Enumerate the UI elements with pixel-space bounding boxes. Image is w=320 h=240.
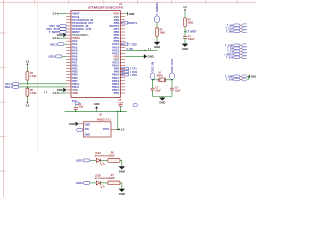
wire: [59, 92, 66, 94]
svg-text:VIN: VIN: [85, 128, 89, 131]
junction: [117, 111, 118, 112]
resistor R4: [26, 72, 37, 81]
svg-text:10kΩ: 10kΩ: [160, 32, 166, 34]
U2 VOUT pin: [111, 128, 116, 130]
wire: [59, 37, 66, 39]
svg-text:AP-N7WW9302: AP-N7WW9302: [95, 177, 111, 180]
hier label T_NRST: [49, 30, 66, 34]
wire: [62, 55, 66, 57]
power +3.3V below R5: [26, 100, 30, 107]
wire: [125, 49, 157, 51]
svg-text:GND: GND: [182, 47, 188, 51]
wire: [64, 43, 66, 45]
wire: [90, 159, 97, 161]
svg-text:VDD: VDD: [72, 91, 78, 95]
wire: [19, 86, 66, 88]
svg-text:4.7kΩ: 4.7kΩ: [30, 75, 36, 78]
border tick marks left: [0, 32, 6, 34]
svg-text:10uF: 10uF: [78, 106, 84, 108]
wire: [26, 80, 28, 84]
ground flag on rail: [94, 103, 100, 112]
capacitor C3: [170, 88, 181, 93]
wire: [125, 55, 144, 57]
svg-text:GND: GND: [57, 33, 63, 37]
svg-text:GND: GND: [119, 169, 125, 173]
crystal X1: [157, 73, 166, 82]
wire to ground: [120, 160, 122, 166]
U2 VIN pin label shape: [77, 128, 83, 131]
hier label T_SWDIO (vertical): [155, 2, 160, 23]
wire: [65, 28, 67, 30]
svg-text:T_SWDIO: T_SWDIO: [155, 2, 159, 16]
ground below C1: [182, 44, 188, 51]
hier label I_RX1: [122, 70, 138, 74]
capacitor C5: [118, 100, 124, 106]
wire: [171, 90, 173, 97]
wire: [153, 79, 159, 81]
ground below R6: [119, 166, 125, 173]
junction: [117, 129, 118, 130]
LED LED1: [95, 153, 111, 165]
hier label I_PS1: [122, 73, 138, 77]
junction: [184, 31, 185, 32]
hier label ADC1: [50, 42, 64, 46]
wire: [125, 13, 128, 15]
svg-text:10uF: 10uF: [118, 103, 124, 105]
power +3.3V above R3: [183, 6, 187, 12]
ground at PA11 row: [144, 54, 154, 58]
wire: [59, 13, 66, 15]
wire: [65, 25, 67, 27]
wire: [171, 79, 173, 88]
junction: [27, 86, 28, 87]
svg-text:100nF: 100nF: [188, 39, 195, 41]
svg-text:T_NRST: T_NRST: [188, 32, 198, 34]
ground below R7: [119, 189, 125, 196]
resistor R7: [108, 175, 120, 185]
svg-text:GND: GND: [147, 55, 153, 59]
sheet divider line: [37, 0, 39, 152]
svg-text:10kΩ: 10kΩ: [188, 23, 194, 25]
resistor R5: [26, 88, 37, 96]
hier label LED1: [48, 55, 62, 59]
U1 left pins: [66, 14, 71, 93]
svg-text:GND: GND: [57, 88, 63, 92]
wire: [75, 105, 77, 107]
ground below R2: [154, 42, 160, 49]
svg-text:LED2: LED2: [76, 181, 83, 185]
svg-text:STM32F103C8T6: STM32F103C8T6: [88, 7, 124, 10]
svg-text:AP-N7WW9302: AP-N7WW9302: [95, 155, 111, 158]
svg-text:GND: GND: [129, 12, 135, 16]
svg-text:LED1: LED1: [76, 159, 83, 163]
hier label OSC_OUT: [46, 27, 66, 31]
wire: [152, 90, 154, 97]
svg-text:GND: GND: [251, 75, 256, 78]
wire: [184, 12, 186, 18]
hier label LED2: [76, 181, 90, 185]
svg-text:10pF: 10pF: [155, 91, 161, 93]
connector J3 pin 1 T_GND: [225, 75, 247, 78]
svg-text:PB2: PB2: [114, 91, 120, 95]
svg-text:BOOT1: BOOT1: [128, 21, 137, 25]
U1 right pins: [120, 14, 125, 93]
svg-text:LED1: LED1: [48, 55, 55, 59]
wire: [116, 128, 118, 130]
wire: [26, 67, 28, 72]
U1 left pin names: [72, 12, 93, 95]
svg-text:AMS1117-3.3: AMS1117-3.3: [97, 118, 112, 121]
connector J2 pin 2 T_RX: [227, 47, 247, 50]
svg-text:T_TDO: T_TDO: [128, 42, 136, 46]
U2 GND pin: [78, 123, 83, 125]
svg-text:GND: GND: [119, 192, 125, 196]
wire: [184, 27, 186, 37]
ground at VSSA: [57, 33, 67, 37]
wire: [247, 75, 250, 77]
ground flag at top right: [128, 12, 135, 16]
junction: [27, 83, 28, 84]
hier label (small) right of rail: [133, 104, 137, 107]
ground at J3: [250, 75, 257, 79]
svg-text:T_5V0: T_5V0: [226, 79, 234, 82]
wire: [100, 182, 107, 184]
hier label OSC_IN (vertical): [150, 62, 155, 80]
svg-text:SDA1: SDA1: [5, 85, 13, 89]
wire: [120, 106, 122, 111]
power +3.3V at VBAT: [53, 13, 59, 16]
wire: [156, 23, 158, 28]
connector J2 pin 3 T_TX: [227, 50, 246, 53]
svg-text:LED1: LED1: [95, 153, 102, 155]
hier label I_TX1: [122, 67, 138, 71]
wire: [26, 87, 28, 88]
svg-text:10pF: 10pF: [175, 91, 181, 93]
capacitor C2: [151, 88, 162, 93]
hier label SCL1: [5, 82, 19, 86]
capacitor C1: [183, 36, 195, 41]
svg-text:T_5V0: T_5V0: [226, 56, 234, 59]
wire: [90, 182, 97, 184]
power +3.3V at VDD: [53, 92, 59, 95]
connector J2 pin 5 T_5V0: [226, 56, 247, 59]
svg-text:ADC1: ADC1: [50, 42, 58, 46]
wire: [152, 79, 154, 88]
resistor R3: [184, 18, 194, 27]
LED LED2: [95, 175, 111, 187]
wire: [65, 34, 67, 36]
power +3.3V at VDDA: [53, 37, 59, 40]
power +3.3V at VOUT: [118, 128, 125, 131]
microcontroller U1 STM32F103C8T6: [71, 3, 124, 98]
wire: [117, 111, 119, 129]
hier label T_NRST right: [186, 30, 197, 33]
connector J1 pin 3 T_DIO: [226, 30, 247, 33]
hier label OSC_IN: [49, 24, 66, 28]
svg-text:OSC_OUT: OSC_OUT: [170, 58, 174, 72]
ground at VSS: [57, 88, 67, 92]
svg-text:GND: GND: [69, 122, 75, 126]
connector J1 pin 1 T_MS: [227, 24, 247, 27]
wire: [65, 89, 67, 91]
power +3.3V for R4: [26, 61, 30, 67]
junction: [144, 50, 145, 51]
wire: [161, 97, 163, 98]
svg-text:8MHz: 8MHz: [157, 75, 164, 77]
svg-text:330Ω: 330Ω: [109, 178, 115, 180]
wire: [153, 96, 173, 98]
border tick marks top: [34, 0, 36, 4]
page border left: [2, 0, 4, 197]
junction: [248, 76, 249, 77]
svg-text:VOUT: VOUT: [103, 128, 110, 131]
svg-text:330Ω: 330Ω: [109, 156, 115, 158]
regulator U2: [83, 114, 111, 137]
ground at U2 GND pin: [69, 122, 79, 126]
wire: [75, 109, 77, 111]
svg-text:GND: GND: [85, 123, 91, 126]
wire: [65, 110, 127, 112]
junction: [152, 79, 153, 80]
capacitor C4: [74, 103, 84, 109]
wire: [100, 159, 107, 161]
wire: [184, 38, 186, 44]
ground below crystal: [159, 98, 165, 105]
svg-text:OSC_IN: OSC_IN: [151, 62, 155, 72]
wire to ground: [120, 183, 122, 189]
hier label LED1: [76, 159, 90, 163]
resistor R2: [156, 28, 166, 37]
svg-text:I_PS1: I_PS1: [130, 73, 138, 77]
svg-text:GND: GND: [94, 103, 100, 106]
wire: [165, 79, 172, 81]
hier label T_TDO: [122, 42, 137, 46]
svg-text:5V0: 5V0: [72, 99, 77, 103]
hier label BOOT1: [122, 21, 138, 25]
svg-text:GND: GND: [154, 45, 160, 49]
svg-text:GND: GND: [85, 134, 91, 137]
svg-text:4.7kΩ: 4.7kΩ: [30, 92, 36, 95]
junction: [120, 111, 121, 112]
junction: [171, 79, 172, 80]
resistor R6: [108, 153, 120, 163]
svg-text:LED2: LED2: [95, 175, 102, 177]
connector J2 pin 1 T_GND: [225, 44, 247, 47]
wire: [26, 96, 28, 100]
page border top: [0, 1, 256, 3]
connector J1 pin 2 T_CLK: [225, 27, 246, 30]
wire: [156, 36, 158, 42]
connector J2 pin 4 I_NRST: [224, 53, 246, 56]
hier label OSC_OUT (vertical): [170, 58, 175, 79]
svg-text:T_DIO: T_DIO: [226, 30, 233, 33]
U1 right pin names: [110, 12, 120, 95]
hier label SDA1: [5, 85, 19, 89]
wire: [65, 31, 67, 33]
junction: [75, 111, 76, 112]
connector J3 pin 2 T_5V0: [226, 78, 247, 81]
wire J3 join: [247, 76, 249, 79]
hier label 5V0: [72, 99, 79, 104]
wire: [19, 83, 66, 85]
svg-text:GND: GND: [159, 101, 165, 105]
